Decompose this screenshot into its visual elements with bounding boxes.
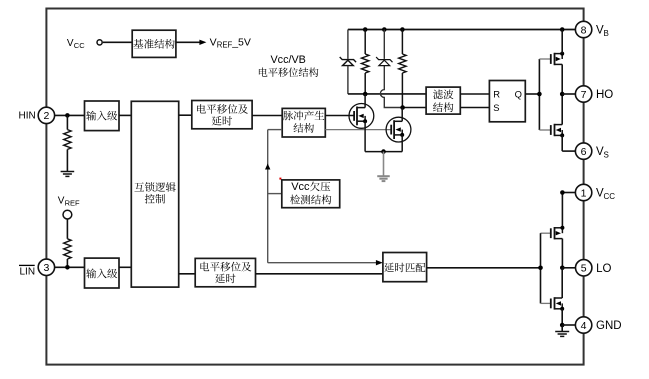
block input stage 2 输入级	[85, 258, 120, 288]
arrow up on detect bus	[265, 164, 270, 170]
resistor R_LIN pullup	[64, 239, 71, 259]
node HO mid	[560, 92, 565, 97]
transistor M4 (LO NMOS)	[541, 302, 551, 304]
svg-text:4: 4	[581, 320, 587, 332]
wire level shift 1 to pulse gen	[252, 115, 282, 117]
wire Q2 drain	[401, 108, 403, 122]
wire LO to pin 5	[562, 267, 575, 269]
block level shift delay 1 电平移位及延时	[192, 101, 252, 129]
pin 6 circle	[575, 143, 591, 159]
wire lower shift node to filter	[403, 107, 427, 109]
wire VCC to reference block	[103, 41, 132, 43]
svg-text:2: 2	[43, 110, 49, 122]
wire HIN to input stage	[55, 114, 85, 116]
node rail-R2	[400, 27, 405, 32]
wire M1 source down	[561, 64, 563, 94]
wire stub to ground	[561, 325, 563, 332]
resistor R2	[401, 30, 403, 55]
wire UV detect bus vertical	[267, 130, 269, 263]
wire M3 source down	[561, 239, 563, 268]
pin 3 circle LIN	[38, 259, 54, 275]
node LO mid	[560, 266, 565, 271]
wire resistor to LIN node	[66, 259, 68, 267]
wire pulse gen to Q1 gate	[325, 115, 354, 117]
label 电平移位结构	[259, 68, 268, 77]
wire GND node to pin 4	[562, 324, 575, 326]
pin 2 circle HIN	[38, 107, 54, 123]
node lower shift	[400, 105, 405, 110]
svg-text:V: V	[210, 37, 217, 49]
wire upper shift node to filter	[348, 93, 426, 95]
wire HO gate bus	[538, 59, 540, 130]
transistor Q1 (level shift NMOS)	[349, 104, 374, 129]
wire delay match to LO gate bus	[427, 267, 541, 269]
svg-text:5: 5	[581, 263, 587, 275]
block U_REF 基准结构 (reference)	[132, 30, 176, 57]
wire filter to R input	[460, 93, 489, 95]
svg-text:7: 7	[581, 89, 587, 101]
zener D2 with hop	[383, 30, 385, 59]
wire VCC pin to M3	[562, 192, 575, 194]
wire resistor to ground	[66, 149, 68, 171]
svg-text:REF: REF	[217, 41, 233, 50]
svg-text:8: 8	[581, 24, 587, 36]
svg-text:S: S	[604, 150, 609, 159]
wire input stage 1 to interlock	[119, 114, 131, 116]
pin 7 circle	[575, 86, 591, 102]
block level shift delay 2 电平移位及延时	[195, 258, 255, 286]
zener D2 symbol	[376, 57, 392, 62]
node rail-R1	[363, 27, 368, 32]
wire interlock to level shift 2	[179, 273, 196, 275]
block filter 滤波结构	[426, 87, 460, 114]
wire LO gate bus	[540, 233, 542, 303]
svg-text:S: S	[493, 102, 499, 113]
wire M4 source to GND node	[561, 309, 563, 325]
node HO gate bus	[537, 92, 542, 97]
svg-text:1: 1	[581, 187, 587, 199]
ground under LO stage	[555, 331, 569, 333]
block SR latch	[489, 81, 525, 122]
node common source	[381, 149, 386, 154]
wire filter to S input	[460, 107, 489, 109]
wire VREF to resistor	[66, 219, 68, 239]
svg-text:Q: Q	[515, 88, 522, 99]
ground (gray) level shift	[377, 175, 390, 177]
svg-text:Vcc: Vcc	[291, 181, 310, 193]
svg-text:3: 3	[43, 262, 49, 274]
wire junction down to resistor	[66, 115, 68, 129]
node HIN junction	[65, 113, 70, 118]
block interlock logic 互锁逻辑控制	[131, 101, 178, 287]
wire detect bus to pulse gen	[268, 129, 283, 131]
svg-text:LIN: LIN	[20, 266, 36, 277]
wire + arrow to VREF_5V	[176, 41, 200, 43]
node LO gate bus	[538, 266, 543, 271]
wire VB rail	[348, 29, 576, 31]
node LIN junction	[65, 265, 70, 270]
node rail-M1 drain	[560, 27, 565, 32]
svg-text:6: 6	[581, 146, 587, 158]
wire common source	[365, 151, 402, 153]
transistor M3 (LO PMOS)	[541, 232, 551, 234]
svg-text:GND: GND	[596, 320, 622, 332]
red speck artifact	[279, 178, 281, 180]
wire interlock to level shift 1	[179, 114, 192, 116]
svg-text:R: R	[493, 88, 500, 99]
svg-text:Vcc/VB: Vcc/VB	[270, 54, 305, 66]
transistor M1 (HO PMOS)	[539, 58, 550, 60]
block UV detect Vcc欠压检测结构	[282, 180, 340, 208]
svg-text:_5V: _5V	[231, 37, 251, 49]
pin 4 circle	[575, 317, 591, 333]
wire Q1 drain	[364, 94, 366, 108]
svg-text:CC: CC	[74, 41, 85, 50]
zener D1	[347, 30, 349, 59]
pin 8 circle	[575, 21, 591, 37]
wire M1 drain to VB rail	[561, 30, 563, 54]
terminal circle VCC	[97, 40, 102, 45]
block delay match 延时匹配	[383, 253, 427, 282]
wire level shift 2 to delay match	[256, 273, 383, 275]
node upper shift	[363, 92, 368, 97]
wire pulse gen to Q2 gate (gray)	[325, 129, 391, 131]
wire Q to HO gate bus	[525, 93, 539, 95]
resistor R_HIN pulldown	[64, 130, 71, 150]
block pulse generator 脉冲产生结构	[282, 108, 325, 137]
wire M4 drain up	[561, 268, 563, 298]
wire input stage 2 to interlock	[119, 266, 131, 268]
terminal circle VREF	[63, 210, 72, 219]
transistor M2 (HO NMOS)	[539, 129, 550, 131]
node rail-D2	[382, 27, 387, 32]
wire HO to pin 7	[562, 93, 575, 95]
resistor R1	[364, 30, 366, 55]
pin 1 circle	[575, 184, 591, 200]
svg-text:REF: REF	[65, 199, 80, 208]
ground under R_HIN	[61, 171, 75, 173]
svg-text:CC: CC	[604, 192, 616, 201]
svg-text:HO: HO	[596, 89, 613, 101]
node GND junction	[560, 323, 565, 328]
wire to gray ground	[383, 152, 385, 176]
wire detect bus to delay match + arrow	[268, 262, 376, 264]
wire M2 drain up	[561, 94, 563, 125]
svg-text:LO: LO	[596, 263, 611, 275]
svg-text:HIN: HIN	[19, 110, 36, 121]
IC outline box	[46, 9, 583, 365]
wire M2 source to VS	[561, 135, 563, 151]
pin 5 circle	[576, 260, 592, 276]
svg-text:B: B	[604, 29, 609, 38]
transistor Q2 (level shift NMOS)	[386, 117, 411, 142]
wire Q1 source down	[364, 121, 366, 151]
wire UV block to detect bus	[268, 193, 282, 195]
wire LIN to input stage 2	[55, 266, 85, 268]
wire Q2 source down	[401, 135, 403, 152]
block input stage 1 输入级	[85, 101, 120, 131]
node VCC corner	[560, 190, 565, 195]
